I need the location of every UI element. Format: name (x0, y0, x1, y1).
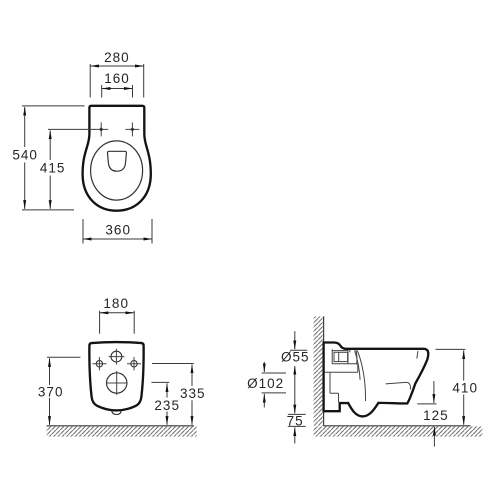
svg-text:160: 160 (104, 71, 130, 86)
svg-text:Ø102: Ø102 (247, 376, 284, 391)
svg-text:Ø55: Ø55 (281, 349, 310, 364)
svg-text:540: 540 (12, 148, 38, 163)
svg-text:180: 180 (103, 296, 129, 311)
svg-text:360: 360 (105, 223, 131, 238)
svg-text:415: 415 (40, 161, 66, 176)
svg-text:410: 410 (452, 381, 478, 396)
svg-text:370: 370 (38, 385, 64, 400)
svg-text:235: 235 (154, 398, 180, 413)
svg-text:335: 335 (180, 386, 206, 401)
svg-text:75: 75 (287, 413, 304, 428)
svg-text:280: 280 (104, 50, 130, 65)
svg-text:125: 125 (423, 408, 449, 423)
